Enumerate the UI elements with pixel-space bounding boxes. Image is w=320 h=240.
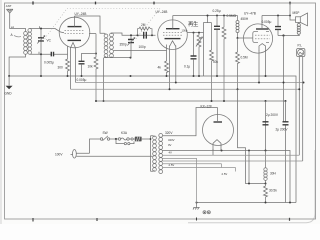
svg-text:0.5M: 0.5M (241, 56, 248, 60)
tube V1 cathode bar (68, 39, 82, 41)
border tick left (32, 218, 34, 222)
svg-text:P.L: P.L (298, 44, 303, 48)
variable capacitor VC2 (127, 35, 135, 57)
svg-text:MSP: MSP (293, 11, 300, 15)
wire plug lower lead to transformer (90, 155, 153, 157)
wire L2 bottom cathode line (30, 54, 68, 56)
node coupling cap junction (216, 15, 218, 17)
wire filter to transformer primary (142, 136, 153, 172)
svg-text:0.1μ: 0.1μ (184, 65, 190, 69)
svg-text:340V: 340V (168, 138, 175, 142)
svg-text:0.5MΩ: 0.5MΩ (227, 14, 237, 18)
wire T1 secondary top to grid circuit (112, 33, 156, 35)
capacitor C2 screen bypass (79, 54, 97, 77)
wire antenna lead down and to coil (10, 13, 26, 32)
svg-text:2.5V: 2.5V (169, 163, 175, 167)
potentiometer VR regeneration (196, 33, 203, 76)
node grid return stub junction (207, 15, 209, 17)
node ground bus junction dots (8, 75, 266, 77)
tube V3 envelope (243, 24, 272, 53)
capacitor C3 grid 100p (144, 32, 147, 39)
wire B+ bus to speaker vertical (289, 3, 291, 16)
resistor R5 50k (210, 23, 214, 101)
svg-text:UY–24B: UY–24B (156, 10, 168, 14)
node plate bypass junction (277, 15, 279, 17)
svg-text:30.5k: 30.5k (269, 189, 277, 193)
node grid resistor junction (223, 15, 225, 17)
coil PT secondary (159, 134, 163, 174)
svg-text:KX–12F: KX–12F (201, 104, 213, 108)
tube V3 grids dashed (255, 35, 270, 39)
transformer tap rails (163, 155, 303, 202)
tube V1 envelope (59, 17, 90, 48)
tube V2 grids dashed (163, 33, 183, 36)
common line L1 (96, 100, 286, 102)
node grid cap left junction (137, 34, 139, 36)
wire grid return loop left leg (204, 16, 212, 77)
wire filter cap 1 leg (265, 101, 267, 151)
node speaker feed junction (289, 15, 291, 17)
svg-text:SW: SW (103, 131, 108, 135)
svg-text:2μ 200V: 2μ 200V (276, 128, 289, 132)
wire speaker coil return (278, 35, 300, 37)
tube V3 grid box (253, 32, 269, 43)
coil T1a RF transformer primary (104, 33, 108, 57)
heater rail A (76, 82, 304, 84)
svg-text:0.005μ: 0.005μ (77, 78, 87, 82)
node VC1 top junction (40, 28, 42, 30)
svg-text:2.5V: 2.5V (222, 172, 228, 176)
svg-text:0V: 0V (168, 143, 172, 147)
svg-text:2M: 2M (141, 23, 146, 27)
tube V2 plate (166, 16, 180, 29)
resistor R4 4k cathode (165, 61, 169, 76)
page bottom-right rounded edge (188, 150, 315, 223)
svg-text:GND: GND (5, 92, 13, 96)
fuse F1 (116, 138, 135, 140)
wire HV tap to rectifier plate (163, 108, 218, 136)
tube V4 envelope (203, 115, 234, 146)
svg-text:再生: 再生 (188, 20, 199, 28)
svg-text:VC: VC (47, 39, 52, 43)
wire V2 screen line to regen pot (187, 32, 203, 34)
svg-text:ANT: ANT (6, 4, 12, 8)
node B+ top bus junction dots (33, 1, 290, 4)
svg-text:0.25μ: 0.25μ (213, 9, 221, 13)
pilot lamp PL (297, 49, 305, 57)
node L1 dots (95, 100, 287, 102)
node B+ dots (221, 150, 267, 152)
node primary feed junction (150, 138, 152, 140)
tube V2 envelope (158, 20, 188, 50)
ground bus rail (9, 76, 296, 203)
svg-text:50k: 50k (213, 60, 219, 64)
wire pilot lamp leads (299, 57, 302, 162)
antenna symbol (6, 9, 13, 13)
wire V2 heater legs (170, 46, 176, 90)
wire V1 screen grid line (89, 33, 96, 35)
tube V2 cathode bar (165, 38, 181, 40)
tube V1 heater (71, 43, 76, 49)
heater rail B (71, 88, 300, 90)
node V3 grid junction (237, 37, 239, 39)
capacitor C7 2u electrolytic (263, 122, 269, 125)
tube V2 heater (170, 41, 176, 47)
capacitor C5 0.25u coupling (214, 16, 220, 77)
border tick right (289, 218, 291, 221)
wire V3 plate line to speaker (262, 15, 290, 17)
coil T1b RF transformer secondary (110, 33, 114, 58)
wire V1 cathode stub (67, 46, 69, 54)
node T1 bottom junction (130, 57, 132, 59)
choke CH1 450H grid (236, 16, 239, 39)
chassis ground symbol (193, 203, 200, 210)
node switch fuse junction (115, 138, 117, 140)
node branch bottom dot (248, 183, 250, 185)
svg-text:100p: 100p (182, 29, 188, 33)
fuse spare lower contacts (116, 139, 134, 145)
node tap labels (168, 138, 227, 176)
tube V3 plate (256, 16, 269, 30)
label A coupling arrow (11, 33, 22, 37)
wire plug upper lead to switch (90, 139, 101, 153)
coil L2 secondary (tuning) (28, 29, 32, 55)
wire tap branch down (248, 151, 250, 184)
terminal jacks (203, 211, 210, 214)
node speaker return junction (282, 34, 284, 36)
node rail B dots (169, 88, 301, 90)
resistor R8 30.5k bleeder (264, 184, 268, 203)
node bottom line dots (196, 202, 292, 204)
capacitor C6 0.005u plate bypass (275, 16, 281, 36)
wire B+ line (163, 151, 291, 203)
wire screen grid drop (95, 34, 97, 54)
node screen line junction at bypass (193, 32, 195, 34)
tube V4 plate (214, 108, 223, 123)
border bottom tick (196, 218, 198, 221)
wire V1 plate to RF transformer (75, 16, 105, 33)
AC plug (71, 150, 90, 159)
wire speaker return descender (283, 36, 285, 123)
border tick mid (96, 218, 98, 221)
ganged tuning dashed link (43, 9, 160, 42)
switch SW (100, 136, 116, 141)
node VC2 grid junction (130, 34, 132, 36)
wire speaker feed (290, 16, 296, 21)
svg-text:0.005μ: 0.005μ (262, 20, 272, 24)
svg-text:450H: 450H (241, 17, 249, 21)
variable capacitor VC1 (37, 29, 45, 77)
resistor R7 0.5M grid leak (236, 38, 240, 89)
wire T1 primary return to common line (103, 58, 105, 101)
wire T1 primary bottom line (104, 57, 130, 59)
resistor R3 2M grid leak (138, 27, 153, 35)
svg-text:10k: 10k (88, 65, 94, 69)
page left edge (0, 0, 2, 224)
choke CH2 30H filter (264, 151, 267, 184)
tube V1 grids dashed (65, 30, 85, 33)
resistor R2 10k screen dropper (94, 54, 98, 102)
wire grid line from L2 top to tube V1 grid (30, 29, 64, 33)
tube V3 filament (259, 44, 266, 51)
resistor R1 300ohm cathode (66, 56, 70, 76)
wire V2 plate coupling line (173, 15, 238, 17)
tube V4 filament (213, 140, 221, 150)
coil L1 primary (antenna coil) (24, 31, 28, 54)
node screen line junction at pot (198, 32, 200, 34)
wire V3 filament legs (259, 50, 266, 83)
wire coil L1 bottom to ground rail (9, 54, 25, 76)
speaker magnetic (296, 13, 308, 26)
svg-text:320V: 320V (165, 131, 173, 135)
node grid cap right junction (151, 34, 153, 36)
wire V2 cathode lead (166, 45, 168, 62)
node cathode wire tick (38, 52, 40, 54)
node choke bottom junction (265, 183, 267, 185)
svg-text:UY–47B: UY–47B (244, 12, 256, 16)
svg-text:4V: 4V (169, 151, 173, 155)
svg-text:2μ 200V: 2μ 200V (266, 113, 279, 117)
wire back bias run (238, 89, 266, 183)
wire V4 filament legs (213, 149, 221, 155)
line filter coil (135, 137, 142, 142)
coil PT primary (153, 136, 157, 172)
node screen bypass junction (95, 53, 97, 55)
svg-text:100p: 100p (139, 45, 146, 49)
svg-text:30H: 30H (270, 172, 277, 176)
wire bottom return line (197, 202, 297, 204)
capacitor C4 0.1u bypass (191, 33, 197, 76)
wire V3 grid entry (238, 37, 254, 39)
svg-text:350p: 350p (120, 43, 127, 47)
tube V1 plate (68, 16, 82, 27)
ground symbol GND (5, 76, 13, 96)
capacitor C8 2u electrolytic (283, 122, 289, 125)
wire T1 secondary tap regeneration line (114, 50, 167, 52)
svg-text:K3A: K3A (121, 131, 128, 135)
capacitor 0.005u series plates (51, 52, 53, 57)
resistor R6 0.5M grid (222, 16, 226, 102)
wire V1 heater legs (71, 48, 76, 90)
svg-text:UY–24B: UY–24B (75, 12, 87, 16)
node grid wire tick (39, 26, 41, 28)
coil speaker driver (297, 22, 300, 35)
svg-text:300: 300 (58, 66, 64, 70)
svg-text:4k: 4k (158, 66, 162, 70)
node common line junction (103, 100, 105, 102)
wire filter cap 2 leg (285, 101, 287, 203)
node rail A dots (175, 82, 305, 84)
node VC1 bottom junction (40, 53, 42, 55)
svg-text:0.005μ: 0.005μ (44, 61, 54, 65)
svg-text:100V: 100V (55, 153, 63, 157)
